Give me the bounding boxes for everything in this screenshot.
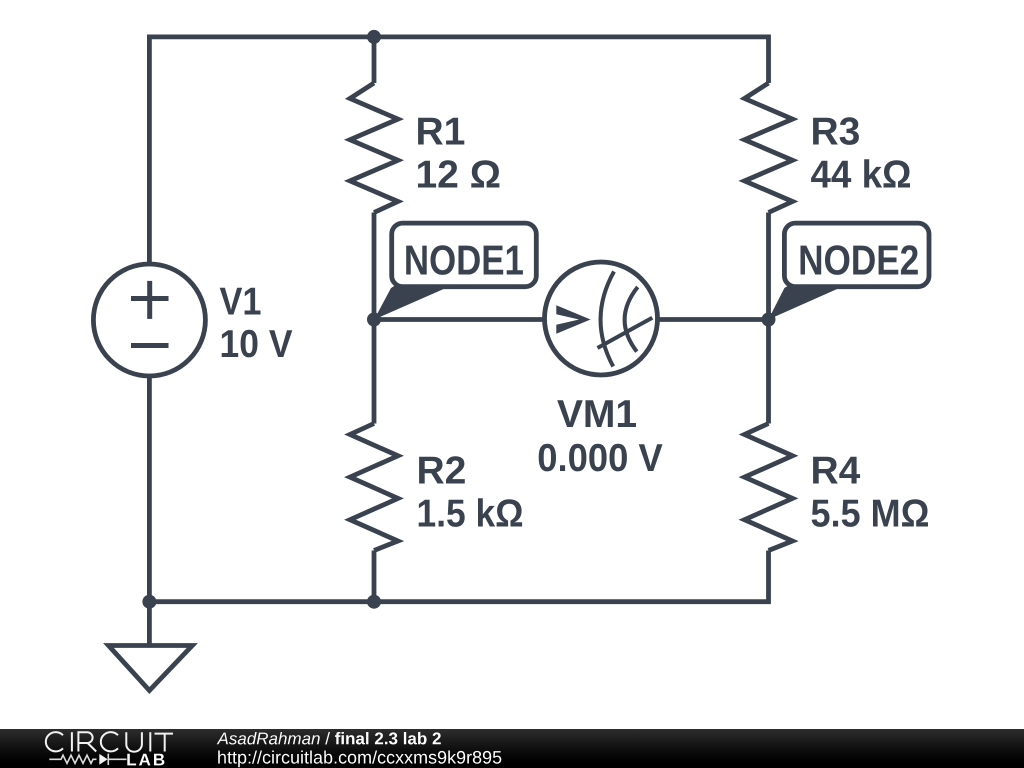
logo letter T (155, 734, 174, 752)
VM1 meter arc left (601, 272, 614, 367)
logo letter C2 (101, 732, 118, 751)
label R3 designator (813, 117, 859, 145)
VM1 needle (598, 318, 653, 348)
junction dot NODE1 (367, 313, 381, 327)
label VM1 designator (557, 400, 636, 427)
NODE2 callout tail (768, 286, 844, 320)
VM1 greater-than symbol (556, 305, 590, 334)
wire middle right (voltmeter to NODE2) (657, 317, 769, 322)
logo diode triangle (99, 754, 107, 765)
logo letter R (78, 732, 96, 751)
NODE1 callout tail (374, 286, 450, 320)
resistor R3 body (745, 83, 793, 213)
V1 plus sign (131, 296, 169, 301)
logo resistor zigzag (49, 755, 96, 763)
junction dot bottom left (142, 595, 156, 609)
node label box NODE2 (784, 223, 929, 287)
logo letter I2 (149, 732, 151, 751)
resistor R1 body (372, 37, 377, 83)
junction dot NODE2 (762, 313, 776, 327)
VM1 meter arc right (625, 287, 638, 352)
footer title bold (335, 732, 441, 745)
wire bottom rail (149, 378, 768, 602)
V1 minus sign (131, 343, 169, 348)
label R3 value 44 kohm (811, 159, 910, 187)
label R2 designator (419, 456, 465, 483)
label VM1 reading 0.000 V (539, 444, 663, 472)
node label box NODE1 (392, 223, 537, 287)
node name NODE2 (801, 245, 918, 275)
ground symbol (147, 602, 152, 646)
footer url line (218, 751, 501, 768)
label V1 designator (220, 288, 261, 315)
logo text LAB (127, 754, 164, 766)
resistor R4 body (766, 320, 771, 424)
logo letter I1 (71, 732, 73, 751)
wire middle left (NODE1 to voltmeter) (374, 317, 545, 322)
logo diode wire (109, 758, 127, 760)
node name NODE1 (406, 245, 523, 275)
footer bar (0, 729, 1024, 768)
label R1 designator (418, 118, 464, 145)
wire top rail (149, 37, 768, 263)
label R4 value 5.5 Mohm (812, 499, 928, 527)
logo letter C1 (46, 732, 63, 751)
footer author name italic (217, 732, 320, 745)
junction dot R2 bottom (367, 595, 381, 609)
label R2 value 1.5 kohm (419, 498, 522, 527)
label V1 value 10 V (222, 330, 293, 358)
label R4 designator (813, 457, 860, 484)
label R1 value 12 ohm (418, 160, 499, 187)
logo diode cathode bar (107, 754, 109, 765)
footer separator slash (325, 732, 330, 745)
logo letter U (126, 732, 142, 752)
resistor R2 body (372, 320, 377, 424)
junction dot top (367, 30, 381, 44)
voltmeter VM1 circle (545, 262, 658, 375)
voltage source V1 circle (93, 264, 205, 376)
